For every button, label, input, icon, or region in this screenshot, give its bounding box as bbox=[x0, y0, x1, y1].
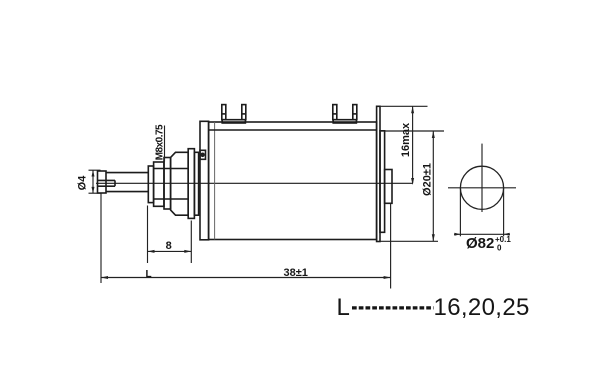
dim 8 extension lines bbox=[147, 206, 149, 264]
collar bbox=[164, 158, 171, 210]
svg-text:16,20,25: 16,20,25 bbox=[434, 294, 530, 321]
dim Ø20±1 line bbox=[432, 131, 434, 241]
dim 8 line bbox=[148, 250, 192, 252]
threaded bushing bbox=[154, 162, 164, 206]
terminal pin 4 bbox=[353, 105, 357, 120]
rear hub tab bbox=[385, 170, 392, 204]
dim L / 38±1 extension lines bbox=[100, 193, 102, 283]
svg-text:0: 0 bbox=[497, 244, 502, 253]
washer bbox=[188, 149, 194, 219]
note dashed leader bbox=[352, 306, 434, 309]
svg-text:Ø82: Ø82 bbox=[466, 235, 494, 252]
terminal base left bbox=[222, 120, 245, 123]
dim Ø82 extension lines bbox=[459, 188, 461, 236]
body bbox=[209, 122, 377, 240]
dim Ø4 extension ticks bbox=[89, 169, 101, 171]
thread boundary lines bbox=[154, 168, 189, 170]
rear cover bbox=[380, 131, 385, 233]
body seam line bbox=[214, 122, 216, 240]
dim Ø20±1 extension lines bbox=[380, 130, 444, 132]
rear bracket plate bbox=[377, 106, 380, 241]
lock washer bbox=[194, 152, 198, 215]
body top inner line bbox=[208, 129, 377, 131]
leader M8x0.75 bbox=[164, 126, 166, 162]
bushing end bbox=[148, 166, 153, 203]
dim Ø82 line bbox=[454, 233, 510, 235]
svg-text:16max: 16max bbox=[400, 122, 412, 157]
hex nut bbox=[171, 152, 189, 215]
shaft tip cap bbox=[98, 171, 107, 193]
svg-text:8: 8 bbox=[166, 240, 172, 252]
front plate bbox=[200, 121, 209, 240]
terminal base right bbox=[333, 120, 356, 123]
dim Ø4 line bbox=[92, 170, 94, 193]
svg-text:Ø4: Ø4 bbox=[77, 175, 89, 191]
svg-text:M8x0.75: M8x0.75 bbox=[155, 124, 166, 160]
svg-text:38±1: 38±1 bbox=[284, 267, 308, 279]
circle horizontal crosshair bbox=[448, 187, 516, 189]
terminal pin 3 bbox=[333, 105, 337, 120]
shaft bbox=[106, 172, 149, 174]
dimension graphics bbox=[89, 106, 517, 288]
dim L / 38±1 line bbox=[101, 277, 391, 279]
terminal pin 2 bbox=[242, 105, 246, 120]
screwdriver slot bbox=[98, 179, 115, 181]
svg-text:Ø20±1: Ø20±1 bbox=[422, 163, 434, 196]
rivet lug bbox=[200, 150, 206, 159]
end view circle bbox=[460, 166, 503, 209]
svg-text:L: L bbox=[337, 294, 350, 321]
circle vertical crosshair bbox=[481, 144, 483, 212]
dim 16max line bbox=[412, 106, 414, 183]
svg-text:L: L bbox=[146, 269, 152, 280]
centerline (shaft axis) bbox=[96, 182, 413, 184]
terminal pin 1 bbox=[222, 105, 226, 120]
dim 16max extension line bbox=[380, 105, 428, 107]
